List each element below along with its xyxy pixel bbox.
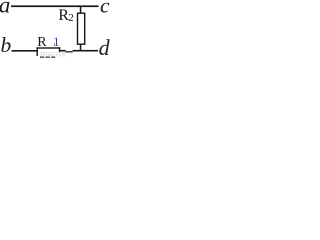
svg-text:2: 2 (68, 12, 74, 24)
wire bottom junction to d (73, 50, 99, 52)
wire bottom R1 to junction (sagging middle segment) (60, 50, 66, 52)
resistor R1 body (top edge) (37, 47, 61, 48)
svg-text:1: 1 (53, 35, 59, 49)
resistor R1 body (broken bottom edge) (40, 57, 44, 58)
background (0, 0, 112, 59)
wire stub bottom of R2 (80, 44, 82, 50)
resistor R1 body (left edge) (37, 47, 38, 56)
svg-text:c: c (100, 0, 110, 18)
wire bottom left b to R1 (12, 50, 38, 52)
svg-text:d: d (99, 35, 111, 59)
resistor R2 body (78, 13, 85, 44)
svg-text:R: R (37, 35, 47, 50)
resistor R1 body (right edge) (59, 47, 61, 52)
wire top a-c (11, 5, 99, 7)
wire stub top of R2 (80, 6, 82, 13)
svg-text:a: a (0, 0, 10, 18)
svg-text:b: b (1, 33, 12, 57)
